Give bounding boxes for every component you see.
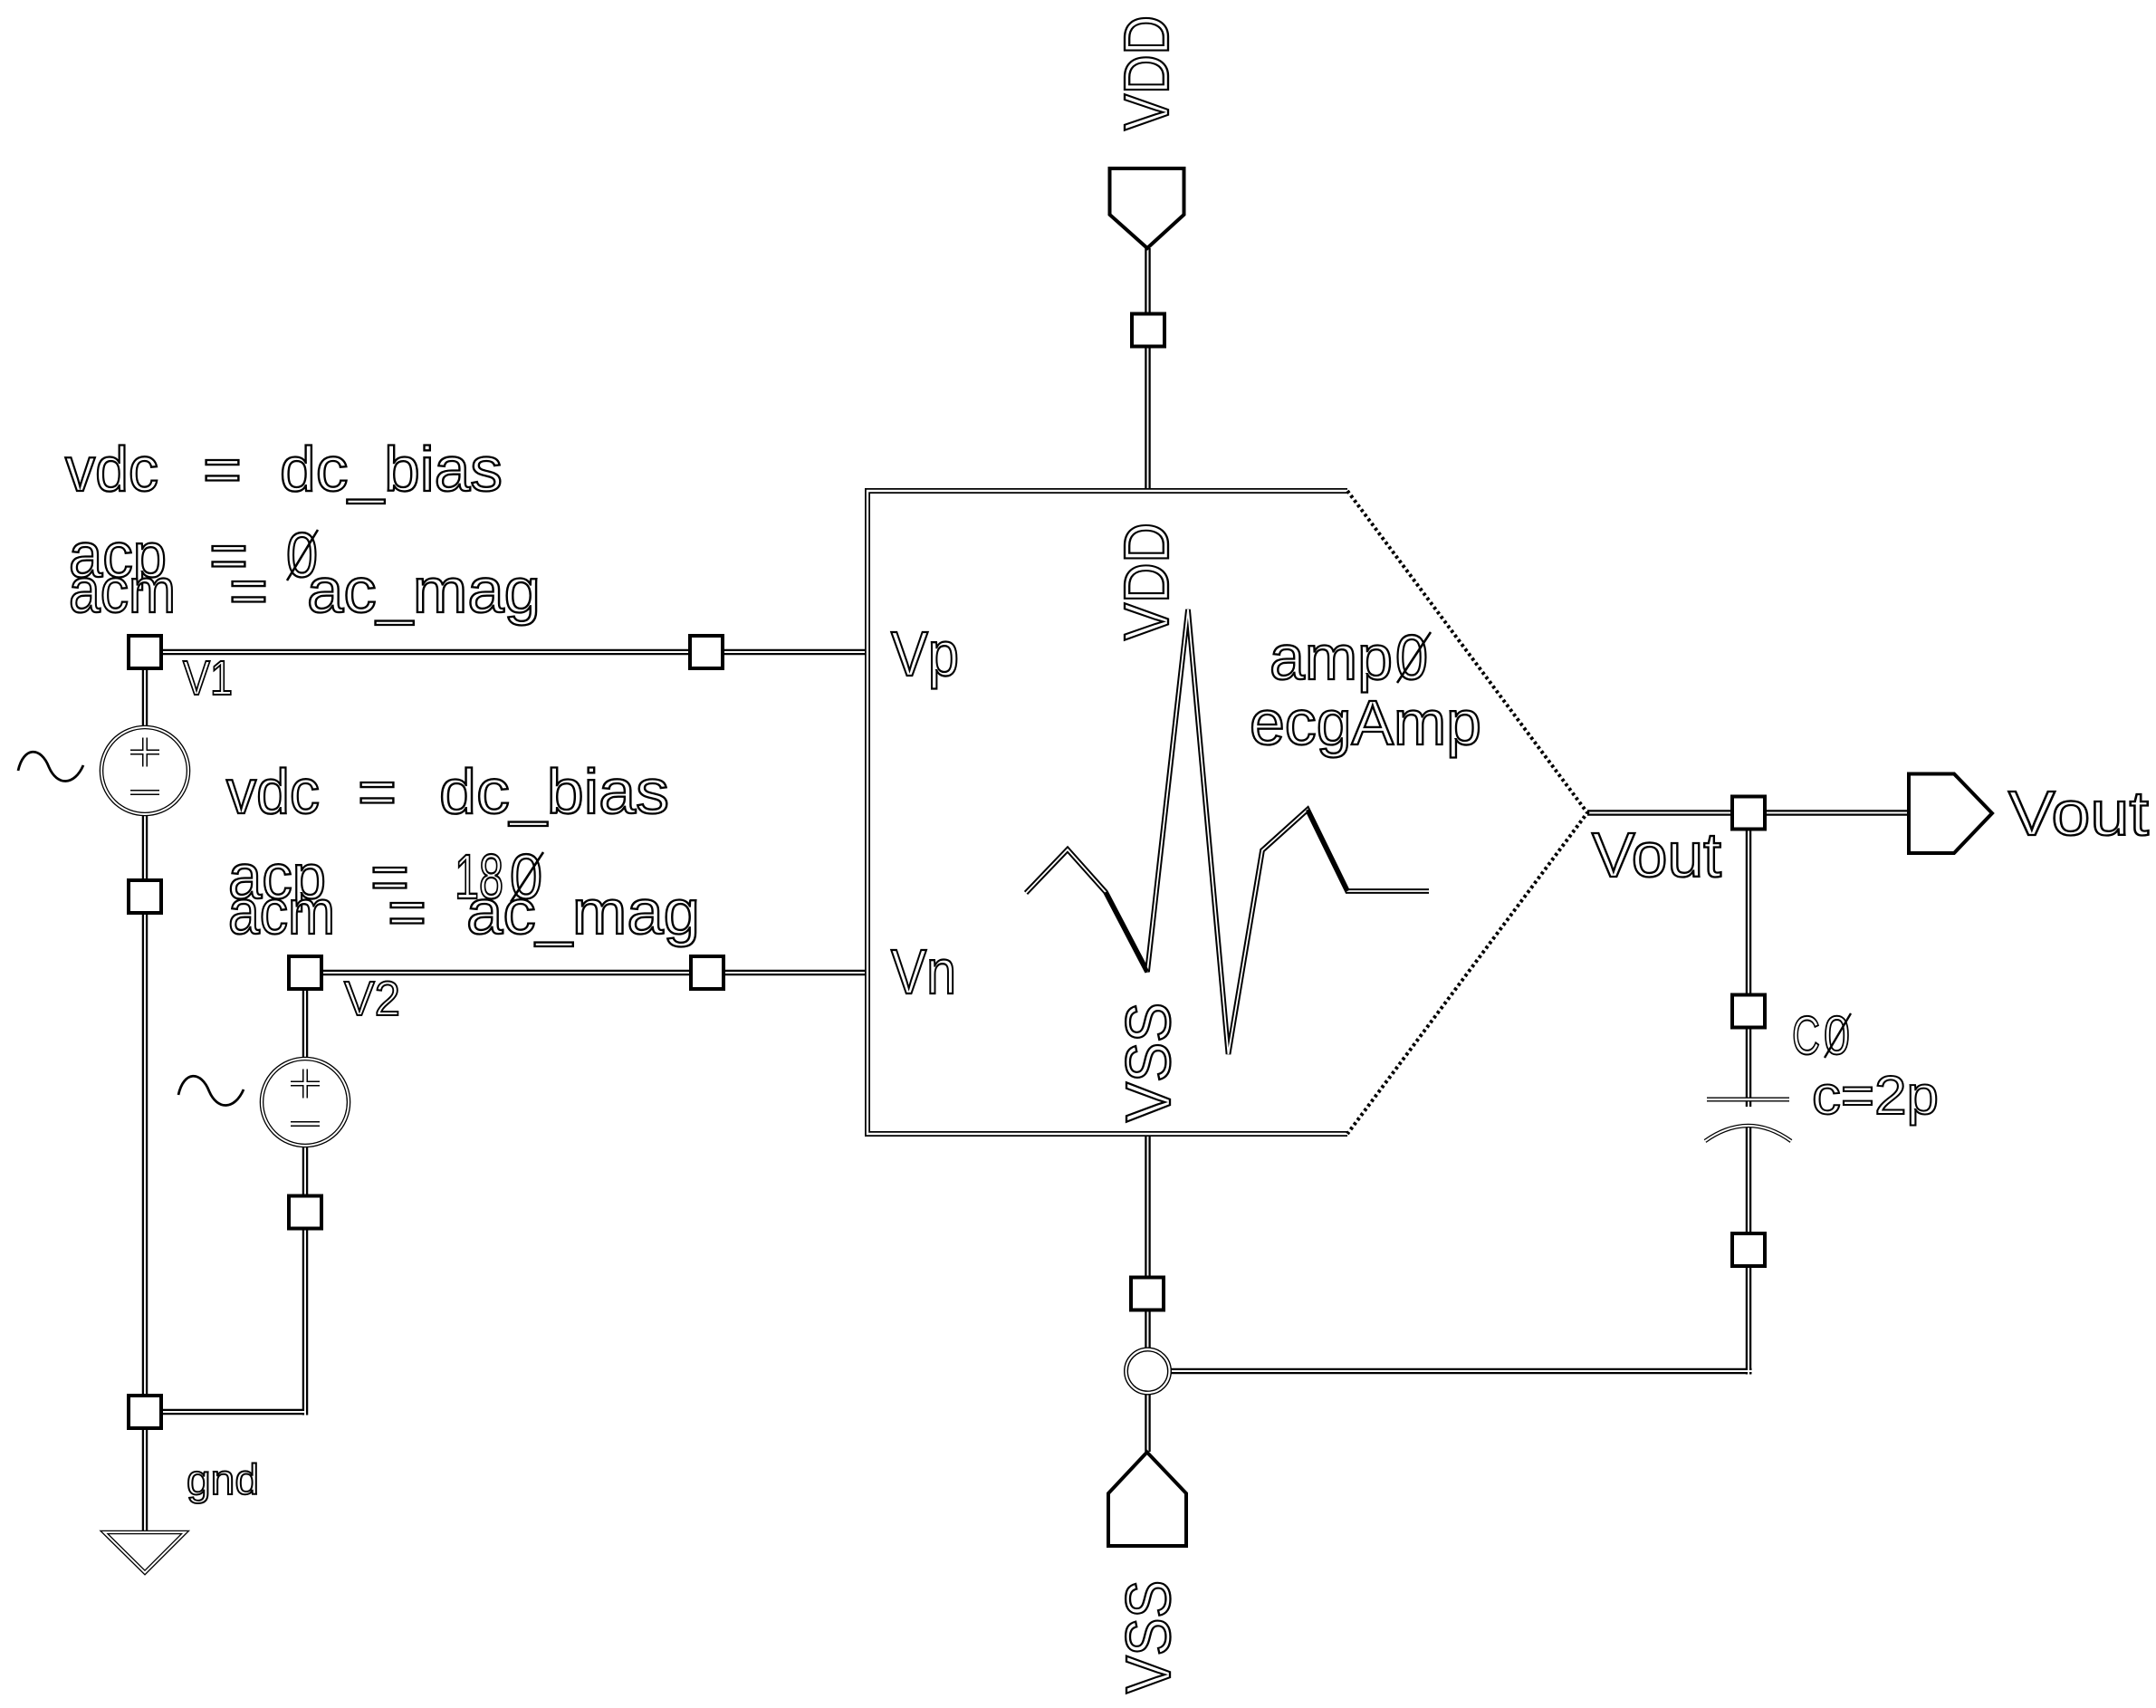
svg-text:Vout: Vout (2008, 778, 2149, 849)
svg-text:acm: acm (228, 877, 335, 947)
ECG waveform inside amp (1026, 609, 1429, 1054)
wire V2 negative terminal down and jog to gnd node (145, 973, 305, 1415)
svg-text:dc_bias: dc_bias (439, 756, 669, 827)
ground symbol (104, 1532, 186, 1573)
svg-text:=: = (388, 877, 426, 947)
svg-text:VSS: VSS (1113, 1003, 1183, 1122)
pin square on Vn wire (691, 956, 723, 989)
VDD power pin symbol (1110, 168, 1184, 248)
wire capacitor C0 bottom to VSS net junction (1148, 1125, 1752, 1375)
pin square V1 top (129, 636, 161, 668)
svg-text:dc_bias: dc_bias (280, 434, 503, 504)
pin square V2 top (289, 956, 321, 989)
svg-text:C: C (1792, 1005, 1820, 1066)
voltage source V1 (101, 727, 188, 814)
pin square gnd node (129, 1396, 161, 1428)
wire VDD pin to amp (1145, 248, 1151, 491)
svg-text:vdc: vdc (65, 434, 158, 504)
svg-text:VSS: VSS (1113, 1580, 1183, 1694)
svg-text:=: = (358, 756, 397, 827)
wire net Vp from V1 to amp (145, 649, 867, 656)
pin square capacitor top (1732, 995, 1765, 1028)
svg-text:Vn: Vn (891, 936, 956, 1007)
op-amp amp0 (cell ecgAmp) body (867, 491, 1587, 1134)
pin square VSS wire (1131, 1278, 1164, 1310)
svg-text:amp: amp (1270, 622, 1393, 693)
svg-text:c=2p: c=2p (1812, 1065, 1939, 1126)
svg-text:0: 0 (1395, 622, 1428, 693)
svg-text:ac_mag: ac_mag (466, 877, 700, 947)
voltage source V2 (262, 1059, 349, 1146)
wire V1 negative terminal down to gnd (142, 652, 149, 1531)
sine symbol of V1 (18, 752, 83, 781)
svg-text:ac_mag: ac_mag (307, 555, 541, 626)
wire net Vout from amp to output pin (1587, 810, 1909, 816)
pin square capacitor bottom (1732, 1233, 1765, 1266)
wire amp to VSS pin (1145, 1134, 1151, 1452)
svg-text:acm: acm (69, 555, 176, 626)
svg-text:=: = (229, 555, 268, 626)
svg-text:vdc: vdc (226, 756, 320, 827)
wire net Vn from V2 to amp (305, 970, 867, 976)
pin square VDD wire (1132, 314, 1164, 347)
wire Vout node down to capacitor C0 (1746, 813, 1752, 1108)
svg-text:ecgAmp: ecgAmp (1250, 687, 1481, 758)
svg-text:VDD: VDD (1111, 15, 1182, 130)
sine symbol of V2 (178, 1076, 244, 1105)
svg-text:gnd: gnd (187, 1455, 259, 1503)
pin square V2 bottom (289, 1196, 321, 1229)
svg-text:Vp: Vp (891, 619, 959, 689)
pin square V1 bottom (129, 880, 161, 913)
svg-text:V1: V1 (183, 651, 233, 705)
svg-text:VDD: VDD (1111, 523, 1182, 640)
pin square Vout node (1732, 797, 1765, 830)
VSS power pin symbol (1108, 1453, 1186, 1547)
svg-text:V2: V2 (344, 972, 400, 1026)
node junction circle on VSS net (1126, 1349, 1170, 1393)
svg-text:Vout: Vout (1592, 820, 1721, 890)
svg-text:=: = (203, 434, 242, 504)
pin square on Vp wire (690, 636, 723, 668)
capacitor C0 (1705, 1099, 1791, 1141)
output pin symbol Vout (1909, 774, 1992, 854)
